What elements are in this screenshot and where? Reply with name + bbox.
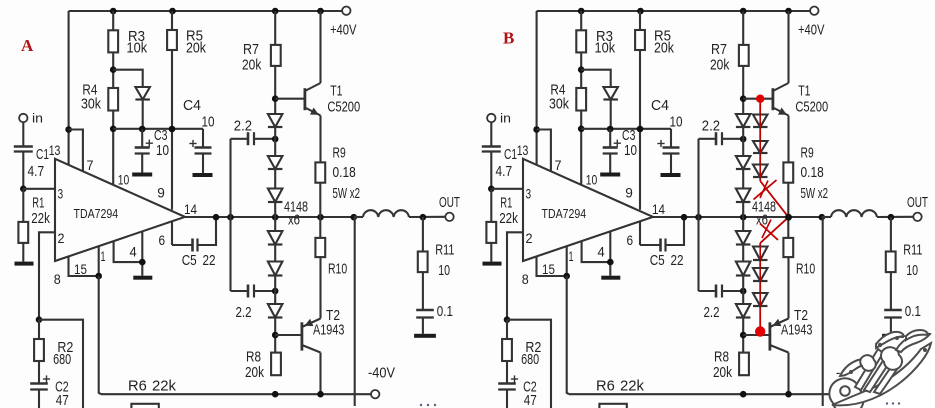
svg-text:R10: R10: [796, 261, 815, 278]
svg-text:20k: 20k: [710, 57, 730, 74]
wire L-OUT (A): [409, 216, 445, 218]
node rail-R5 (B): [637, 8, 644, 15]
node dcol bottom cap (A): [272, 288, 279, 295]
capacitor C5 (B): [640, 217, 684, 269]
pin 14 label (A): [184, 201, 197, 217]
inductor L1 (B): [822, 210, 877, 217]
svg-text:6: 6: [627, 232, 634, 248]
pin 3 label (A): [58, 186, 64, 202]
capacitor C2 (A): [30, 375, 68, 408]
wire C1-node (A): [22, 152, 24, 189]
terminal -40V (A): [368, 365, 395, 399]
resistor R5 (B): [635, 28, 674, 57]
node R5 bottom (B): [637, 126, 644, 133]
wire pin2 (B): [507, 232, 523, 319]
node R8 bottom (A): [272, 391, 279, 398]
wire R5 branch (A): [171, 11, 173, 210]
wire feedback out (A): [39, 320, 83, 408]
node dcol-out (A): [272, 214, 279, 221]
ground C3 (A): [132, 173, 152, 177]
svg-text:9: 9: [157, 185, 165, 201]
svg-text:10: 10: [906, 262, 918, 279]
resistor R1 (B): [486, 189, 518, 262]
node C3 top (A): [139, 126, 146, 133]
capacitor Ca 2.2 top (B): [699, 118, 744, 146]
node T2 base (B): [740, 332, 747, 339]
svg-text:15: 15: [542, 261, 555, 277]
terminal -40V (B): [836, 365, 863, 399]
svg-text:R8: R8: [246, 349, 261, 366]
node R5 bottom (A): [169, 126, 176, 133]
wire output down (B): [822, 217, 824, 406]
label circuit B: [503, 29, 514, 48]
ground C4 (B): [661, 173, 681, 177]
pin 15 label (B): [542, 261, 555, 277]
pin 8 label (A): [54, 271, 61, 287]
node red top (B): [756, 95, 764, 103]
diode D5 (B): [736, 262, 751, 276]
svg-text:22k: 22k: [31, 210, 50, 227]
svg-text:10k: 10k: [595, 40, 616, 57]
diode D7 (A): [135, 87, 150, 100]
svg-text:10: 10: [118, 172, 130, 188]
svg-text:2.2: 2.2: [236, 304, 252, 321]
node dcol-out (B): [740, 214, 747, 221]
svg-text:13: 13: [49, 142, 61, 158]
wire -Vs down (B): [567, 276, 569, 394]
pin 10 label (A): [118, 172, 130, 188]
svg-text:4: 4: [598, 244, 605, 260]
node dcol bottom cap (B): [740, 288, 747, 295]
wire red over diode (B): [759, 141, 761, 153]
svg-text:TDA7294: TDA7294: [74, 206, 119, 221]
svg-text:22: 22: [671, 252, 684, 269]
mark red X lower cross stroke (B): [760, 220, 778, 241]
svg-text:C5200: C5200: [327, 99, 360, 116]
node rail-R3 (A): [110, 8, 117, 15]
wire +40V top rail (B): [537, 10, 811, 12]
resistor R8 (B): [713, 349, 749, 382]
node dcol top cap (A): [272, 136, 279, 143]
wire pin1 (A): [98, 246, 100, 276]
svg-text:22k: 22k: [499, 210, 518, 227]
resistor R9 (B): [783, 145, 828, 203]
node input (B): [488, 186, 495, 193]
wire pin3 (B): [491, 188, 523, 190]
svg-text:10: 10: [670, 114, 683, 131]
diode D2 (A): [268, 156, 283, 169]
wire red bypass vertical top (B): [759, 99, 761, 181]
wire pin7 (B): [537, 130, 551, 171]
circuit A: [14, 7, 460, 408]
svg-text:47: 47: [524, 392, 537, 408]
svg-text:T1: T1: [798, 83, 810, 100]
terminal +40V (A): [330, 7, 357, 39]
node R4 bottom (A): [110, 126, 117, 133]
capacitor C4 (B): [651, 97, 683, 173]
resistor R9 (A): [315, 145, 360, 203]
svg-text:R6: R6: [128, 378, 147, 395]
resistor R4 (A): [81, 82, 118, 113]
wire red diagonal to output node (B): [760, 181, 788, 217]
pin 3 label (B): [526, 186, 532, 202]
wire R7-column (A): [274, 11, 276, 353]
capacitor C1 (B): [482, 146, 517, 180]
svg-text:C1: C1: [36, 146, 49, 163]
wire +40V top rail (A): [69, 10, 343, 12]
svg-text:in: in: [500, 111, 511, 126]
label 4148 x6 (B): [752, 199, 776, 229]
node feedback (B): [504, 316, 511, 323]
svg-text:6: 6: [159, 232, 166, 248]
wire pin6 (B): [639, 222, 641, 246]
svg-text:C1: C1: [504, 146, 517, 163]
svg-text:0.1: 0.1: [905, 303, 921, 320]
svg-text:10: 10: [438, 262, 450, 279]
node pin1-8-15 (A): [95, 273, 102, 280]
svg-text:OUT: OUT: [439, 194, 460, 211]
node C3 top (B): [607, 126, 614, 133]
wire red over diode (B): [759, 293, 761, 306]
node R8 bottom (B): [740, 391, 747, 398]
wire D7 branch (A): [113, 70, 143, 129]
diode Db5 (B): [753, 268, 768, 281]
node pin4 gnd (B): [607, 259, 614, 266]
svg-text:C5200: C5200: [795, 99, 828, 116]
wire red over diode (B): [759, 268, 761, 281]
terminal in (B): [487, 111, 511, 126]
wire -Vs down (A): [99, 276, 101, 394]
node rail-T1 collector (A): [317, 8, 324, 15]
svg-text:R11: R11: [903, 242, 922, 259]
svg-text:R7: R7: [711, 41, 727, 58]
transistor T1 C5200 (A): [305, 83, 360, 116]
resistor R3 (A): [108, 28, 147, 57]
pin 13 label (A): [49, 142, 61, 158]
pin 14 label (B): [652, 201, 665, 217]
svg-text:C5: C5: [650, 252, 665, 269]
wire T1 collector (B): [787, 11, 789, 83]
wire output (A): [185, 216, 354, 218]
svg-text:22: 22: [203, 252, 216, 269]
svg-text:20k: 20k: [245, 364, 264, 381]
diode D3 (A): [268, 189, 283, 203]
wire red over diode (B): [759, 165, 761, 178]
svg-text:R7: R7: [243, 41, 259, 58]
ground pin4 (A): [133, 276, 152, 280]
wire in-C1 (A): [22, 122, 24, 146]
pin 2 label (B): [526, 230, 533, 246]
svg-text:0.18: 0.18: [333, 164, 356, 181]
wire pin4 (B): [582, 241, 611, 262]
wire pin6 (A): [171, 222, 173, 246]
svg-text:R9: R9: [333, 145, 346, 162]
label 4148 x6 (A): [284, 199, 308, 229]
wire T1 collector (A): [319, 11, 321, 83]
diode Db2 (B): [753, 141, 768, 153]
op-amp U1 TDA7294 (A): [55, 159, 185, 261]
node R4 bottom (B): [578, 126, 585, 133]
wire 2.2 left line (B): [697, 139, 699, 291]
svg-text:10: 10: [586, 172, 598, 188]
capacitor C1 (A): [14, 146, 49, 180]
svg-text:680: 680: [521, 351, 539, 368]
svg-text:R6: R6: [596, 378, 615, 395]
wire red bypass vertical bottom (B): [759, 243, 761, 335]
svg-text:R10: R10: [328, 261, 347, 278]
diode D1 (A): [268, 114, 283, 127]
capacitor C6 0.1 (A): [416, 272, 453, 334]
resistor R8 (A): [245, 349, 281, 382]
svg-text:2.2: 2.2: [702, 118, 720, 135]
resistor R7 (A): [242, 41, 281, 74]
svg-text:13: 13: [517, 142, 529, 158]
svg-text:7: 7: [555, 157, 562, 173]
resistor R5 (A): [167, 28, 206, 57]
pin 7 label (A): [87, 157, 94, 173]
terminal in (A): [19, 111, 43, 126]
node rail-R3 (B): [578, 8, 585, 15]
svg-text:C5: C5: [182, 252, 197, 269]
wire in-C1 (B): [490, 122, 492, 146]
pin 4 label (A): [130, 244, 137, 260]
wire T2 base (A): [275, 334, 302, 336]
component cutoff box (B): [599, 404, 626, 408]
node T1 base (A): [272, 95, 279, 102]
wire T1 emitter (B): [787, 116, 789, 163]
op-amp U1 TDA7294 (B): [523, 159, 653, 261]
resistor R11 (B): [886, 217, 923, 279]
svg-text:30k: 30k: [81, 96, 101, 113]
wire output down (A): [354, 217, 356, 406]
component cutoff box (A): [131, 404, 158, 408]
wire bias bus (B): [581, 128, 671, 130]
terminal +40V (B): [798, 7, 825, 39]
svg-text:4.7: 4.7: [496, 163, 513, 180]
capacitor C6 0.1 (B): [884, 272, 921, 334]
node 2.2-out (B): [695, 214, 702, 221]
wire T2 collector (B): [787, 353, 789, 395]
svg-text:3: 3: [526, 186, 532, 202]
diode D4 (A): [268, 231, 283, 245]
svg-text:OUT: OUT: [907, 194, 928, 211]
node pin4 gnd (A): [139, 259, 146, 266]
node output junction over red (B): [785, 214, 792, 221]
wire C1-node (B): [490, 152, 492, 189]
node pin1-8-15 (B): [563, 273, 570, 280]
resistor R10 (B): [783, 217, 815, 278]
wire -40V rail (A): [101, 393, 371, 395]
svg-text:C4: C4: [183, 97, 201, 114]
node 2.2-out (A): [227, 214, 234, 221]
wire R3 branch (A): [112, 11, 114, 184]
wire pin13 (B): [536, 11, 538, 165]
svg-text:3: 3: [58, 186, 64, 202]
wire red diagonal from output node (B): [760, 217, 788, 243]
svg-text:4.7: 4.7: [28, 163, 45, 180]
wire bias bus (A): [113, 128, 203, 130]
wire D7 branch (B): [581, 70, 611, 129]
label circuit A: [21, 36, 34, 55]
transistor T2 A1943 (A): [302, 307, 345, 353]
capacitor C5 (A): [172, 217, 216, 269]
diode D4 (B): [736, 231, 751, 245]
node pin7 tap (B): [533, 126, 540, 133]
pin 10 label (B): [586, 172, 598, 188]
svg-text:2.2: 2.2: [234, 118, 252, 135]
svg-text:0.18: 0.18: [801, 164, 824, 181]
diode D7 (B): [603, 87, 618, 100]
node rail-R7 (B): [740, 8, 747, 15]
wire R10-T2 (B): [787, 257, 789, 318]
svg-text:14: 14: [184, 201, 197, 217]
wire R3 branch (B): [580, 11, 582, 184]
resistor R2 (B): [502, 320, 541, 384]
watermark dots: [420, 402, 900, 406]
wire output (B): [653, 216, 822, 218]
node output (B): [819, 214, 826, 221]
circuit B: [482, 7, 928, 408]
wire pin7 (A): [69, 130, 83, 171]
svg-text:20k: 20k: [242, 57, 262, 74]
transistor T1 C5200 (B): [773, 83, 828, 116]
resistor R1 (A): [18, 189, 50, 262]
svg-text:22k: 22k: [152, 378, 176, 395]
node R9-R10 (A): [317, 214, 324, 221]
svg-text:8: 8: [522, 271, 529, 287]
wire -40V rail (B): [569, 393, 839, 395]
svg-text:2.2: 2.2: [704, 304, 720, 321]
ground C6 (B): [882, 334, 904, 338]
wire pin3 (A): [23, 188, 55, 190]
node rail-R7 (A): [272, 8, 279, 15]
wire R9-node (B): [787, 183, 789, 217]
pin 6 label (B): [627, 232, 634, 248]
svg-text:4: 4: [130, 244, 137, 260]
svg-text:30k: 30k: [549, 96, 569, 113]
wire 2.2 left line (A): [229, 139, 231, 291]
svg-text:A1943: A1943: [781, 322, 812, 339]
svg-text:8: 8: [54, 271, 61, 287]
pin 4 label (B): [598, 244, 605, 260]
resistor R4 (B): [549, 82, 586, 113]
ground R1 (B): [483, 262, 502, 266]
diode Db4 (B): [753, 247, 768, 261]
terminal OUT (B): [907, 194, 928, 221]
ground C6 (A): [414, 334, 436, 338]
node R3-R4 (B): [578, 66, 585, 73]
svg-text:680: 680: [53, 351, 71, 368]
label R6 22k (A): [128, 378, 176, 395]
wire T2 base (B): [743, 334, 770, 336]
transistor T2 A1943 (B): [770, 307, 813, 353]
ground C4 (A): [193, 173, 213, 177]
wire R9-node (A): [319, 183, 321, 217]
svg-text:R1: R1: [500, 195, 512, 212]
diode D2 (B): [736, 156, 751, 169]
svg-text:1: 1: [569, 248, 574, 264]
svg-text:20k: 20k: [186, 40, 206, 57]
inductor L1 (A): [354, 210, 409, 217]
pin 1 label (B): [569, 248, 574, 264]
node feedback (A): [36, 316, 43, 323]
diode D1 (B): [736, 114, 751, 127]
svg-text:+40V: +40V: [798, 22, 825, 39]
pin 2 label (A): [58, 230, 65, 246]
wire pin5 tap (A): [141, 232, 143, 276]
node pin7 tap (A): [65, 126, 72, 133]
node T2 base (A): [272, 332, 279, 339]
pin 7 label (B): [555, 157, 562, 173]
svg-text:7: 7: [87, 157, 94, 173]
resistor R10 (A): [315, 217, 347, 278]
node C5-out (A): [213, 214, 220, 221]
svg-text:A: A: [21, 36, 34, 55]
pin 13 label (B): [517, 142, 529, 158]
node T2 collector rail (B): [785, 391, 792, 398]
wire red over diode (B): [759, 247, 761, 261]
svg-text:R11: R11: [435, 242, 454, 259]
resistor R2 (A): [34, 320, 73, 384]
resistor R7 (B): [710, 41, 749, 74]
watermark calligraphy: [829, 330, 935, 408]
terminal OUT (A): [439, 194, 460, 221]
wire R5 branch (B): [639, 11, 641, 210]
diode D6 (B): [736, 304, 751, 318]
wire T1 emitter (A): [319, 116, 321, 163]
svg-text:5W x2: 5W x2: [333, 185, 361, 202]
diode D6 (A): [268, 304, 283, 318]
capacitor Ca 2.2 top (A): [231, 118, 276, 146]
svg-text:10: 10: [156, 142, 169, 159]
node dcol top cap (B): [740, 136, 747, 143]
svg-text:14: 14: [652, 201, 665, 217]
wire R7-column (B): [742, 11, 744, 353]
wire red over diode (B): [759, 115, 761, 128]
ground R1 (A): [15, 262, 34, 266]
svg-text:in: in: [32, 111, 43, 126]
resistor R11 (A): [418, 217, 455, 279]
wire pin8-15 (B): [537, 256, 567, 276]
node rail-R5 (A): [169, 8, 176, 15]
pin 15 label (A): [74, 261, 87, 277]
diode Db6 (B): [753, 293, 768, 306]
wire pin8-15 (A): [69, 256, 99, 276]
svg-text:9: 9: [625, 185, 633, 201]
mark red X upper cross stroke (B): [754, 180, 777, 200]
svg-text:2: 2: [526, 230, 533, 246]
svg-text:47: 47: [56, 392, 69, 408]
wire pin13 (A): [68, 11, 70, 165]
svg-text:15: 15: [74, 261, 87, 277]
capacitor C2 (B): [498, 375, 537, 408]
svg-text:1: 1: [101, 248, 106, 264]
svg-text:2: 2: [58, 230, 65, 246]
wire pin1 (B): [566, 246, 568, 276]
svg-text:B: B: [503, 29, 514, 48]
node rail-T1 collector (B): [785, 8, 792, 15]
node T1 base (B): [740, 95, 747, 102]
node R3-R4 (A): [110, 66, 117, 73]
svg-text:20k: 20k: [713, 364, 732, 381]
ground pin4 (B): [601, 276, 620, 280]
svg-text:TDA7294: TDA7294: [542, 206, 587, 221]
node T2 collector rail (A): [317, 391, 324, 398]
svg-text:5W x2: 5W x2: [801, 185, 829, 202]
wire C2 bottom (A): [38, 390, 40, 408]
svg-text:R9: R9: [801, 145, 814, 162]
diode Db3 (B): [753, 165, 768, 178]
